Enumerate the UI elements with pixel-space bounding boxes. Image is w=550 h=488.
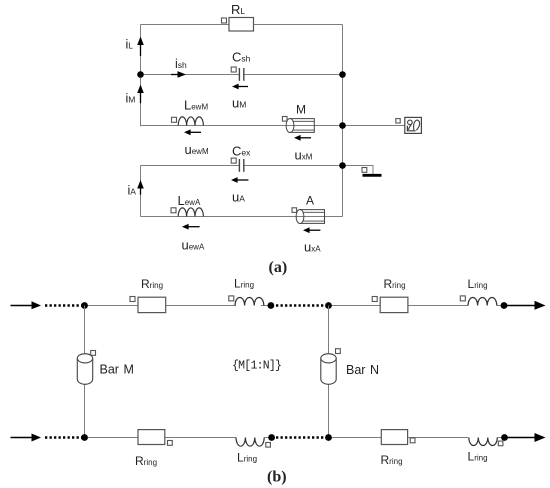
inductor Lring bottom right [468, 438, 503, 464]
wire: motor M branch [141, 125, 343, 127]
svg-text:Bar N: Bar N [346, 363, 379, 377]
wire: top row to mid node [261, 305, 271, 307]
wire: bottom row between R2 and L2 [408, 437, 469, 439]
wire: top row between R2 and L2 [408, 305, 468, 307]
resistor RL [222, 2, 254, 31]
current arrow iL [126, 37, 144, 57]
node top bar N [325, 302, 332, 309]
voltage arrow under Csh [232, 84, 248, 111]
input arrow top left [11, 301, 42, 309]
wire: top row left [85, 305, 139, 307]
node top bar M [81, 302, 88, 309]
node bottom left cell output [268, 434, 275, 441]
dotted segment bottom left [45, 436, 82, 438]
svg-text:{M[1:N]}: {M[1:N]} [232, 360, 281, 373]
wire: shunt branch left segment [141, 74, 240, 76]
node at right rail / Cex junction [339, 162, 346, 169]
capacitor Csh [231, 50, 250, 81]
wire: branch to sensor block [343, 125, 406, 127]
inductor Lring top right [460, 277, 497, 306]
bar M cylinder [77, 351, 134, 385]
wire: top row right cell [329, 305, 381, 307]
ground [362, 168, 382, 176]
resistor Rring bottom left [135, 430, 172, 468]
svg-text:iA: iA [128, 184, 137, 198]
wire: top row between R and L [166, 305, 236, 307]
voltage arrow under LewA [182, 224, 205, 253]
wire: right rail [342, 25, 344, 217]
wire: top line from left rail to right rail [141, 24, 343, 26]
motor M [282, 103, 314, 133]
current arrow iM [126, 85, 144, 106]
svg-text:iL: iL [126, 38, 134, 52]
wire: lower left rail [140, 166, 142, 217]
wire: ground stub [343, 166, 374, 175]
inductor LewM [172, 97, 209, 125]
capacitor Cex [231, 143, 251, 172]
wire: bottom row to mid node [264, 437, 271, 439]
wire: bar N rail lower [328, 384, 330, 438]
sensor block [396, 117, 422, 133]
node top right cell output [501, 302, 508, 309]
current arrow iA [128, 180, 144, 198]
wire: bottom row between R and L [165, 437, 236, 439]
svg-text:A: A [306, 194, 314, 208]
wire: shunt branch right segment [244, 74, 343, 76]
output arrow top right [506, 301, 546, 310]
dotted segment top left [45, 304, 82, 306]
svg-text:Bar M: Bar M [100, 363, 134, 377]
voltage arrow under Cex [231, 177, 248, 204]
node at right rail / motor M junction [339, 122, 346, 129]
node bottom bar N [325, 434, 332, 441]
dotted segment bottom middle [276, 436, 326, 438]
dotted segment top middle [276, 304, 326, 306]
resistor Rring top left [130, 277, 166, 313]
output arrow bottom right [506, 433, 546, 442]
current arrow ish [171, 57, 187, 78]
wire: Cex branch right segment [244, 165, 343, 167]
wire: top row to out node [497, 305, 504, 307]
wire: bar M rail upper [84, 306, 86, 355]
svg-text:M: M [296, 103, 306, 117]
resistor Rring bottom right [381, 430, 416, 467]
resistor Rring top right [372, 277, 408, 313]
wire: bar M rail lower [84, 384, 86, 438]
wire: bar N rail upper [328, 306, 330, 354]
wire: upper left rail [140, 25, 142, 127]
svg-text:(b): (b) [267, 469, 287, 486]
wire: motor A branch [141, 216, 343, 218]
svg-text:iM: iM [126, 92, 136, 106]
motor A [292, 194, 325, 224]
wire: bottom row right cell [329, 437, 382, 439]
bar N cylinder [321, 349, 379, 385]
wire: bottom row left [85, 437, 139, 439]
voltage arrow uxA under motor A [303, 227, 321, 254]
input arrow bottom left [11, 434, 42, 442]
voltage arrow uxM under motor M [294, 135, 313, 163]
wire: bottom row to out node [497, 437, 504, 439]
svg-text:(a): (a) [269, 259, 288, 276]
inductor Lring bottom left [236, 438, 270, 465]
node top left cell output [268, 302, 275, 309]
svg-text:ish: ish [175, 57, 187, 71]
node at right rail / shunt junction [339, 71, 346, 78]
wire: Cex branch left segment [141, 165, 240, 167]
voltage arrow under LewM [184, 129, 209, 157]
inductor LewA [171, 193, 203, 217]
node bottom right cell output [501, 434, 508, 441]
node at left rail / shunt junction [137, 71, 144, 78]
node bottom left bar M [81, 434, 88, 441]
inductor Lring top left [229, 277, 264, 306]
